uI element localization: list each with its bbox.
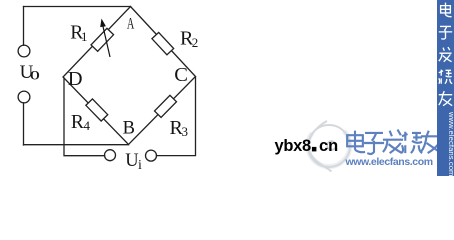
svg-text:C: C [174, 64, 188, 86]
svg-text:1: 1 [81, 29, 88, 44]
svg-text:ybx8: ybx8 [275, 137, 312, 155]
svg-text:cn: cn [319, 137, 338, 155]
svg-text:i: i [138, 158, 142, 173]
svg-text:2: 2 [192, 35, 199, 50]
svg-text:B: B [123, 119, 135, 139]
svg-text:www.elecfans.com: www.elecfans.com [447, 111, 454, 176]
svg-text:www.elecfans.com: www.elecfans.com [345, 156, 433, 168]
svg-text:O: O [30, 68, 40, 82]
svg-text:3: 3 [182, 124, 189, 139]
svg-text:4: 4 [84, 118, 91, 133]
svg-text:R: R [71, 112, 84, 133]
svg-text:A: A [127, 14, 135, 32]
svg-text:D: D [68, 68, 83, 90]
svg-text:U: U [125, 151, 138, 171]
